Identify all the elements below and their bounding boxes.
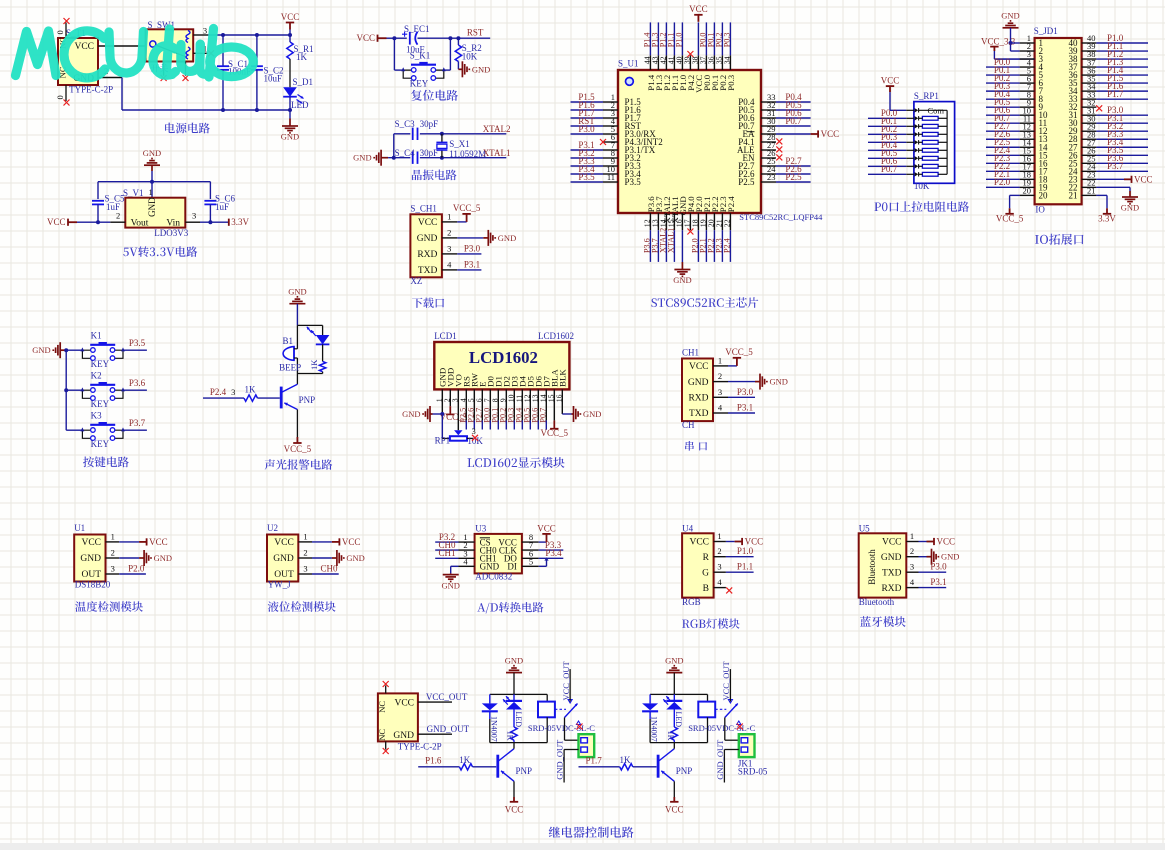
svg-text:VCC_OUT: VCC_OUT xyxy=(561,660,571,700)
svg-text:GND: GND xyxy=(281,132,299,142)
svg-text:3: 3 xyxy=(231,387,235,397)
wire LDO Vin to 3.3V xyxy=(200,221,229,223)
chip right pin 26 EN xyxy=(743,148,783,163)
S_JD1 left pin 13 xyxy=(986,129,1035,139)
S_JD1 right pin 35 xyxy=(1082,73,1148,83)
svg-text:GND_OUT: GND_OUT xyxy=(715,739,725,780)
power port VCC (reset) xyxy=(378,35,387,42)
svg-text:B1: B1 xyxy=(283,336,294,346)
potentiometer RP1 10K xyxy=(435,414,484,446)
svg-text:GND: GND xyxy=(480,562,500,572)
S_JD1 left pin 18 xyxy=(986,169,1035,179)
svg-text:VCC_OUT: VCC_OUT xyxy=(721,660,731,700)
svg-text:LED: LED xyxy=(291,100,309,110)
svg-text:VCC: VCC xyxy=(537,523,556,533)
chip top pin 36 P0.1 xyxy=(706,22,719,90)
wire K2 to P3.6 xyxy=(123,389,147,391)
no-connect X on S_T1 top pin xyxy=(64,18,70,24)
svg-text:G: G xyxy=(702,568,709,578)
svg-text:P2.4: P2.4 xyxy=(726,196,736,212)
S_JD1 left pin 3 xyxy=(994,49,1034,59)
title 晶振电路 xyxy=(412,170,457,181)
svg-text:U2: U2 xyxy=(267,523,278,533)
alarm LED xyxy=(307,325,330,344)
svg-text:CH: CH xyxy=(682,420,695,430)
chip left pin 9 P3.3 xyxy=(571,156,642,171)
U5 pin 1 xyxy=(906,531,955,547)
svg-text:GND: GND xyxy=(393,731,414,741)
wire VCC_OUT to relay switch unit1 xyxy=(561,660,571,701)
wire P1.6 to base resistor unit1 xyxy=(418,756,459,767)
svg-text:1K: 1K xyxy=(620,755,632,765)
capacitor S_C6 1uF xyxy=(204,193,235,224)
svg-text:P2.0: P2.0 xyxy=(128,563,145,573)
alarm LED resistor 1K xyxy=(309,344,326,373)
chip right pin 27 ALE xyxy=(737,140,782,155)
power port VCC (LDO input) xyxy=(68,219,77,226)
chip right pin 32 P0.5 xyxy=(738,100,810,115)
svg-text:VCC: VCC xyxy=(47,217,66,227)
wire P2.4 to base resistor xyxy=(203,397,244,399)
ground symbol above S_JD1 xyxy=(1003,21,1019,28)
S_JD1 left pin 6 xyxy=(986,73,1035,83)
ground symbol (relay) unit1 xyxy=(505,655,523,694)
chip left pin 8 P3.2 xyxy=(571,148,641,163)
svg-text:VCC_5: VCC_5 xyxy=(541,428,569,438)
chip left pin 5 P3.0/RX xyxy=(571,124,657,139)
svg-text:P3.1: P3.1 xyxy=(464,260,480,270)
svg-text:0: 0 xyxy=(55,95,65,99)
wire CH1 VCC to VCC_5 xyxy=(728,365,737,367)
capacitor S_C5 1uF xyxy=(92,193,125,224)
chip top pin 40 P1.0 xyxy=(674,22,687,90)
svg-text:2: 2 xyxy=(447,227,451,237)
svg-text:10K: 10K xyxy=(462,51,478,61)
S_JD1 left pin 17 xyxy=(986,161,1035,171)
chip bottom pin 14 XTAL2 xyxy=(658,196,671,262)
svg-text:KEY: KEY xyxy=(410,78,429,88)
LCD pin 7 D0 xyxy=(482,375,495,429)
svg-text:RXD: RXD xyxy=(417,250,437,260)
svg-text:1uF: 1uF xyxy=(215,202,229,212)
svg-text:GND: GND xyxy=(441,580,459,590)
relay bottom rail unit2 xyxy=(650,742,707,744)
svg-text:P1.0: P1.0 xyxy=(674,33,683,48)
svg-text:4: 4 xyxy=(910,577,915,587)
switch pin 1 stub xyxy=(193,44,208,54)
svg-text:Bluetooth: Bluetooth xyxy=(867,549,877,585)
svg-text:GND: GND xyxy=(1001,11,1019,21)
relay common wire to connector unit2 xyxy=(725,718,739,741)
svg-text:LED: LED xyxy=(674,712,683,728)
chip top pin 34 P0.3 xyxy=(722,22,735,90)
resistor pack input wire P0.0 xyxy=(868,108,906,118)
svg-text:SRD-05VDC-SL-C: SRD-05VDC-SL-C xyxy=(528,723,595,733)
svg-text:3.3V: 3.3V xyxy=(231,217,249,227)
capacitor S_C2 10uF xyxy=(251,33,284,112)
wire U1 VCC xyxy=(119,537,167,547)
svg-text:GND: GND xyxy=(1121,203,1139,213)
switch S_SW1 xyxy=(146,20,194,76)
svg-text:BLK: BLK xyxy=(558,369,568,387)
chip left pin 11 P3.5 xyxy=(571,172,642,187)
S_JD1 right pin 26 xyxy=(1082,145,1148,155)
svg-text:GND: GND xyxy=(288,287,306,297)
relay coil unit2 xyxy=(698,694,715,742)
svg-text:1K: 1K xyxy=(666,731,675,741)
svg-text:11.0592M: 11.0592M xyxy=(449,149,486,159)
svg-text:LCD1602: LCD1602 xyxy=(538,331,574,341)
svg-text:P1.0: P1.0 xyxy=(737,546,754,556)
svg-text:VCC: VCC xyxy=(74,42,94,52)
chip bottom pin 22 P2.4 xyxy=(722,196,735,262)
S_JD1 left pin 4 xyxy=(986,57,1035,67)
svg-text:3: 3 xyxy=(192,211,196,221)
power symbol VCC (resistor pack) xyxy=(886,86,894,92)
alarm bottom rail xyxy=(297,373,322,375)
chip top pin 37 P0.0 xyxy=(698,22,711,90)
svg-text:21: 21 xyxy=(1087,186,1096,196)
wire resistor to LED xyxy=(289,59,291,87)
svg-text:34: 34 xyxy=(722,56,731,64)
S_JD1 left pin 12 xyxy=(986,121,1035,131)
LCD pin 4 RS xyxy=(458,376,471,430)
svg-text:U5: U5 xyxy=(859,524,870,534)
svg-text:VCC: VCC xyxy=(689,538,709,548)
svg-text:TXD: TXD xyxy=(418,266,438,276)
svg-text:VCC: VCC xyxy=(81,538,101,548)
svg-text:P1.7: P1.7 xyxy=(1107,89,1124,99)
svg-text:SRD-05: SRD-05 xyxy=(738,767,768,777)
U3 GND pin 4 xyxy=(459,565,475,567)
wire CH1 GND to ground xyxy=(728,381,755,383)
S_JD1 right pin 34 xyxy=(1082,81,1148,91)
ground symbol (crystal) xyxy=(374,150,388,166)
svg-text:P2.5: P2.5 xyxy=(785,172,802,182)
svg-text:2: 2 xyxy=(303,548,307,558)
svg-text:GND: GND xyxy=(273,554,294,564)
chip top pin 41 P1.1 xyxy=(666,22,679,90)
LED S_D1 xyxy=(283,77,313,110)
relay coil unit1 xyxy=(538,694,555,742)
svg-text:1N4007: 1N4007 xyxy=(650,716,659,742)
LCD pin 5 RW xyxy=(466,372,479,429)
relay LED resistor 1K unit1 xyxy=(506,710,518,743)
svg-text:Vout: Vout xyxy=(131,218,149,228)
no-connect X on switch bottom pins xyxy=(161,75,167,81)
download header S_CH1 xyxy=(410,204,457,287)
svg-text:DS18B20: DS18B20 xyxy=(75,580,111,590)
svg-text:P3.4: P3.4 xyxy=(545,548,562,558)
U3 left pin 1 to P3.2 xyxy=(459,541,475,543)
svg-text:3: 3 xyxy=(111,564,115,574)
chip top pin 44 P1.4 xyxy=(642,22,655,90)
flyback diode 1N4007 unit1 xyxy=(482,694,499,742)
svg-text:30pF: 30pF xyxy=(420,119,439,129)
svg-text:GND: GND xyxy=(472,64,490,74)
wire GND_OUT from connector xyxy=(418,733,452,735)
svg-text:YW_J: YW_J xyxy=(268,580,291,590)
svg-text:GND: GND xyxy=(147,197,157,217)
svg-text:VCC: VCC xyxy=(505,804,524,814)
chip bottom pin 19 P2.1 xyxy=(698,196,711,262)
svg-text:1K: 1K xyxy=(296,52,308,62)
svg-text:VCC: VCC xyxy=(882,538,902,548)
S_JD1 left pin 7 xyxy=(986,81,1035,91)
chip top pin 39 P4.2 xyxy=(682,51,695,91)
svg-text:2: 2 xyxy=(910,546,914,556)
svg-text:P0.7: P0.7 xyxy=(881,164,898,174)
chip bottom pin 20 P2.2 xyxy=(706,196,719,262)
svg-text:VCC: VCC xyxy=(281,12,300,22)
title A/D转换电路 xyxy=(477,602,543,614)
resistor pack input wire P0.1 xyxy=(868,116,906,126)
svg-text:GND: GND xyxy=(941,552,959,562)
svg-text:P1.6: P1.6 xyxy=(425,756,442,766)
chip top pin 42 P1.2 xyxy=(658,22,671,90)
title IO拓展口 xyxy=(1035,234,1084,245)
svg-text:1K: 1K xyxy=(245,385,257,395)
switch pin 3 wire to VCC rail xyxy=(193,26,290,36)
svg-text:B: B xyxy=(703,584,709,594)
title 电源电路 xyxy=(165,123,210,134)
svg-text:LED: LED xyxy=(514,712,523,728)
S_JD1 right pin 24 xyxy=(1082,161,1148,171)
svg-text:VCC: VCC xyxy=(274,538,294,548)
svg-text:VCC: VCC xyxy=(418,218,438,228)
svg-text:U1: U1 xyxy=(74,523,85,533)
wire U1 OUT to P2.0 xyxy=(119,563,146,574)
U3 left pin 2 to CH0 xyxy=(459,549,475,551)
svg-text:2: 2 xyxy=(116,211,120,221)
LDO top rail xyxy=(98,181,210,183)
resistor pack input wire P0.7 xyxy=(868,164,906,174)
relay base resistor 1K unit2 xyxy=(620,755,657,770)
ground symbol (LDO) xyxy=(143,148,161,198)
svg-text:VCC: VCC xyxy=(745,537,764,547)
svg-text:VCC: VCC xyxy=(149,537,168,547)
wire U1 GND xyxy=(119,550,172,566)
chip left pin 1 P1.5 xyxy=(571,92,642,107)
wire K1 to P3.5 xyxy=(123,349,147,351)
svg-text:1: 1 xyxy=(717,531,721,541)
LCD pin 16 BLK xyxy=(554,369,571,414)
svg-text:R: R xyxy=(703,553,710,563)
wire LED to GND xyxy=(289,97,291,119)
svg-text:4: 4 xyxy=(717,577,722,587)
svg-text:K3: K3 xyxy=(91,411,102,421)
title 声光报警电路 xyxy=(265,459,333,470)
switch label 开关 xyxy=(151,64,168,72)
wire S_CH1 RXD to P3.0 xyxy=(457,253,481,255)
ADC U3 ADC0832 body xyxy=(475,523,522,581)
svg-text:GND: GND xyxy=(505,655,523,665)
wire S_CH1 VCC to VCC_5 xyxy=(457,221,466,223)
svg-text:1K: 1K xyxy=(506,731,515,741)
svg-text:GND: GND xyxy=(143,148,161,158)
title STC89C52RC主芯片 xyxy=(651,297,758,308)
no-connect X on switch pin 1 xyxy=(208,50,214,56)
svg-text:VCC_5: VCC_5 xyxy=(725,347,753,357)
chip bottom pin 13 P3.7 xyxy=(650,196,663,262)
S_JD1 left pin 19 xyxy=(986,177,1035,187)
module U1 DS18B20 xyxy=(74,523,119,590)
power port 3.3V xyxy=(228,219,230,226)
svg-text:Bluetooth: Bluetooth xyxy=(859,597,895,607)
U5 pin 3 xyxy=(906,562,947,573)
chip left pin 4 RST xyxy=(571,116,642,131)
svg-text:P3.5: P3.5 xyxy=(625,177,642,187)
key K2 xyxy=(66,371,125,409)
svg-text:KEY: KEY xyxy=(91,399,110,409)
svg-text:P3.1: P3.1 xyxy=(930,577,946,587)
svg-text:VCC: VCC xyxy=(394,699,414,709)
S_JD1 left pin 2 xyxy=(1011,41,1035,51)
svg-text:TYPE-C-2P: TYPE-C-2P xyxy=(398,741,442,751)
ground symbol below LED xyxy=(282,119,298,133)
svg-text:RST: RST xyxy=(467,27,484,37)
svg-text:S_CH1: S_CH1 xyxy=(410,204,437,214)
chip top pin 35 P0.2 xyxy=(714,22,727,90)
relay switch SRD-05VDC-SL-C unit2 xyxy=(688,700,755,734)
buzzer B1 BEEP xyxy=(279,325,301,373)
flyback diode 1N4007 unit2 xyxy=(642,694,659,742)
svg-text:XZ: XZ xyxy=(410,276,422,286)
svg-text:P3.0: P3.0 xyxy=(737,387,754,397)
resistor pack S_RP1 10K body xyxy=(906,91,954,191)
svg-text:GND: GND xyxy=(402,409,420,419)
svg-text:4: 4 xyxy=(718,403,723,413)
svg-text:2: 2 xyxy=(717,546,721,556)
svg-text:10uF: 10uF xyxy=(264,74,283,84)
serial header CH1 xyxy=(682,348,728,430)
ground symbol (keys) xyxy=(53,342,66,358)
key K3 xyxy=(66,411,125,449)
reset top rail wire xyxy=(394,37,406,39)
title 复位电路 xyxy=(411,90,458,101)
svg-text:DI: DI xyxy=(507,562,517,572)
relay base resistor 1K unit1 xyxy=(459,755,496,770)
svg-text:P1.1: P1.1 xyxy=(737,562,753,572)
svg-text:P3.0: P3.0 xyxy=(464,244,481,254)
svg-text:GND: GND xyxy=(881,553,902,563)
output connector JK (SRD-05) unit1 xyxy=(579,734,595,757)
svg-text:P3.0: P3.0 xyxy=(930,562,947,572)
title 5V转3.3V电路 xyxy=(123,246,197,257)
resistor pack input wire P0.2 xyxy=(868,124,906,134)
chip right pin 30 P0.7 xyxy=(738,116,810,131)
chip bottom pin 16 GND xyxy=(674,196,687,262)
svg-text:RXD: RXD xyxy=(881,584,901,594)
svg-text:VCC: VCC xyxy=(821,129,840,139)
ground symbol below chip pin 16 xyxy=(674,262,690,276)
svg-text:XTAL1: XTAL1 xyxy=(483,148,511,158)
resistor pack input wire P0.6 xyxy=(868,156,906,166)
wire CH1 RXD to P3.0 xyxy=(728,396,755,398)
svg-text:11: 11 xyxy=(607,172,615,182)
U5 pin 4 xyxy=(906,577,946,588)
svg-text:PNP: PNP xyxy=(299,395,316,405)
svg-text:VCC_5: VCC_5 xyxy=(453,203,481,213)
svg-text:VCC_3.3: VCC_3.3 xyxy=(981,36,1016,46)
svg-text:XTAL2: XTAL2 xyxy=(483,124,511,134)
USB connector TYPE-C-2P (relay power out) xyxy=(377,686,442,752)
relay emitter wire to VCC unit1 xyxy=(505,781,524,814)
title P0口上拉电阻电路 xyxy=(874,201,969,212)
relay top rail unit2 xyxy=(650,693,707,695)
crystal top rail XTAL2 xyxy=(393,134,395,158)
keys ground bus xyxy=(65,350,67,430)
svg-text:CH0: CH0 xyxy=(320,563,338,573)
svg-text:1K: 1K xyxy=(309,359,319,370)
main chip S_U1 STC89C52RC_LQFP44 body xyxy=(618,59,823,223)
resistor S_R1 1K xyxy=(287,35,314,62)
wire S_T1 GND to bottom rail xyxy=(98,66,290,110)
chip left pin 6 P4.3/INT2 xyxy=(600,132,663,147)
U3 DO pin 6 to P3.4 xyxy=(522,557,539,559)
chip left pin 3 P1.7 xyxy=(571,108,642,123)
svg-text:VCC: VCC xyxy=(1134,174,1153,184)
S_JD1 right pin 33 xyxy=(1082,89,1148,99)
svg-text:VCC_5: VCC_5 xyxy=(996,214,1024,224)
chip bottom pin 18 P2.0 xyxy=(690,196,703,262)
svg-text:1N4007: 1N4007 xyxy=(489,716,498,742)
svg-text:P3.6: P3.6 xyxy=(129,378,146,388)
svg-text:K2: K2 xyxy=(91,371,102,381)
title RGB灯模块 xyxy=(682,618,740,628)
RGB module U4 body xyxy=(682,524,714,608)
svg-text:U3: U3 xyxy=(475,523,486,533)
svg-text:P0.7: P0.7 xyxy=(785,116,802,126)
S_JD1 left pin 10 xyxy=(986,105,1035,115)
crystal S_X1 11.0592M xyxy=(436,134,486,159)
relay LED unit2 xyxy=(663,694,683,727)
svg-text:P3.0: P3.0 xyxy=(578,124,595,134)
S_JD1 right pin 27 xyxy=(1082,137,1148,147)
svg-text:VCC_OUT: VCC_OUT xyxy=(426,692,468,702)
svg-text:PNP: PNP xyxy=(676,766,693,776)
svg-text:RP1: RP1 xyxy=(435,435,451,445)
U3 VCC pin 8 xyxy=(522,541,539,543)
chip right pin 25 P2.7 xyxy=(738,156,810,171)
relay top rail unit1 xyxy=(490,693,547,695)
wire GND_OUT from connector unit2 xyxy=(715,739,739,783)
svg-text:GND: GND xyxy=(665,655,683,665)
ground symbol left of LCD xyxy=(433,413,443,415)
svg-text:VCC: VCC xyxy=(881,76,900,86)
svg-text:S_JD1: S_JD1 xyxy=(1034,26,1058,36)
svg-text:10K: 10K xyxy=(914,181,930,191)
LCD pin 3 VO xyxy=(450,374,463,435)
power symbol VCC top right xyxy=(286,23,294,30)
svg-text:KEY: KEY xyxy=(91,359,110,369)
svg-text:GND: GND xyxy=(154,553,172,563)
U4 pin 4 xyxy=(714,577,733,593)
no-connect X on relay NC contact unit2 xyxy=(737,724,743,730)
relay bottom rail unit1 xyxy=(490,742,547,744)
svg-text:4: 4 xyxy=(447,259,452,269)
alarm emitter wire to VCC_5 xyxy=(296,410,298,438)
svg-text:GND: GND xyxy=(673,275,691,285)
svg-text:1: 1 xyxy=(111,531,115,541)
LCD pin 9 D2 xyxy=(498,376,511,429)
svg-text:0: 0 xyxy=(55,30,65,34)
chip bottom pin 21 P2.3 xyxy=(714,196,727,262)
svg-text:TXD: TXD xyxy=(882,568,902,578)
wire key to rail right side xyxy=(449,38,451,70)
svg-text:3: 3 xyxy=(910,562,914,572)
svg-text:P3.5: P3.5 xyxy=(129,338,146,348)
